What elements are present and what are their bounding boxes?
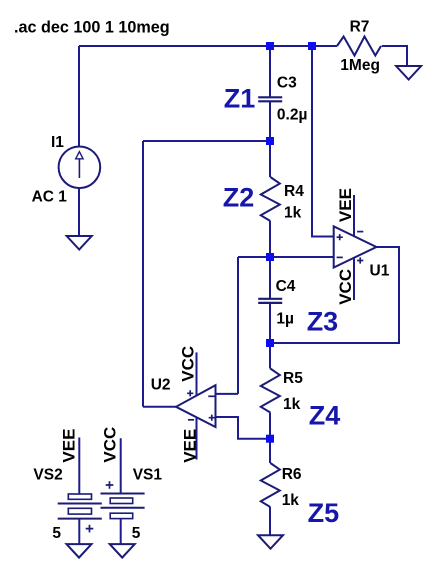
svg-text:VCC: VCC — [336, 269, 355, 305]
svg-text:1k: 1k — [282, 492, 300, 509]
svg-text:U1: U1 — [370, 263, 390, 280]
svg-text:R6: R6 — [282, 466, 302, 483]
svg-text:VS1: VS1 — [133, 466, 163, 483]
svg-text:C4: C4 — [276, 278, 296, 295]
svg-text:5: 5 — [132, 525, 141, 542]
svg-text:Z1: Z1 — [224, 84, 256, 114]
svg-text:VEE: VEE — [181, 429, 200, 463]
svg-text:I1: I1 — [51, 134, 64, 151]
svg-text:5: 5 — [52, 525, 61, 542]
svg-text:R4: R4 — [284, 183, 304, 200]
svg-text:.ac dec 100 1 10meg: .ac dec 100 1 10meg — [14, 18, 170, 36]
svg-text:VCC: VCC — [101, 427, 120, 463]
svg-text:U2: U2 — [151, 377, 171, 394]
svg-text:Z5: Z5 — [308, 498, 340, 528]
svg-text:AC 1: AC 1 — [32, 189, 68, 206]
svg-text:1k: 1k — [283, 396, 301, 413]
svg-text:Z4: Z4 — [309, 401, 341, 431]
svg-text:Z3: Z3 — [307, 307, 339, 337]
svg-text:1µ: 1µ — [276, 310, 294, 327]
svg-text:VS2: VS2 — [33, 466, 62, 483]
svg-text:Z2: Z2 — [223, 183, 255, 213]
svg-text:VCC: VCC — [179, 346, 198, 382]
svg-text:0.2µ: 0.2µ — [277, 106, 307, 123]
svg-text:1k: 1k — [284, 205, 302, 222]
svg-text:VEE: VEE — [60, 429, 79, 463]
svg-text:R5: R5 — [283, 370, 303, 387]
svg-text:R7: R7 — [350, 18, 370, 35]
svg-text:VEE: VEE — [336, 188, 355, 222]
svg-text:1Meg: 1Meg — [340, 57, 380, 74]
svg-text:C3: C3 — [277, 75, 297, 92]
